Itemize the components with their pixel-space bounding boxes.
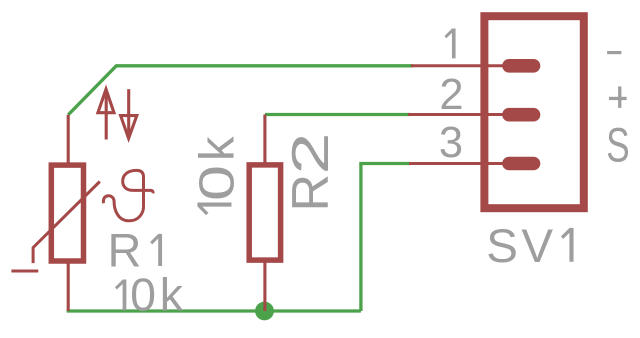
junction dot — [255, 302, 274, 321]
SV1 pin 2 line — [408, 113, 508, 116]
connector SV1 body — [484, 16, 583, 208]
SV1 pad 1 — [502, 59, 540, 73]
SV1 pad 2 — [502, 108, 540, 122]
svg-text:V: V — [521, 220, 553, 273]
svg-text:3: 3 — [439, 119, 463, 167]
R1 thermistor diagonal stroke — [11, 182, 99, 272]
svg-text:0: 0 — [130, 269, 156, 321]
SV1 pad 3 — [502, 157, 540, 171]
value 10k (R1) — [115, 280, 126, 311]
R1 down arrow — [121, 89, 137, 138]
R1 up arrow — [98, 89, 114, 139]
svg-text:S: S — [486, 220, 518, 273]
SV1 pin 1 line — [411, 64, 508, 67]
wire net N2: R2 top to SV1 pin 2 — [265, 113, 410, 116]
wire net N1: R1 top to SV1 pin 1 — [68, 66, 413, 115]
resistor R2 body — [249, 115, 280, 312]
resistor R1 body — [51, 115, 83, 311]
svg-text:k: k — [160, 269, 184, 321]
wire net N3 bottom rail — [67, 309, 361, 312]
svg-text:k: k — [191, 136, 245, 161]
svg-text:S: S — [606, 118, 629, 172]
SV1 pin 3 line — [409, 162, 508, 165]
svg-text:0: 0 — [191, 165, 245, 201]
svg-text:2: 2 — [439, 71, 463, 119]
pin name plus — [609, 86, 627, 108]
svg-text:R: R — [282, 174, 340, 212]
pin name minus — [607, 51, 621, 54]
pin number 1 — [444, 29, 455, 59]
svg-text:2: 2 — [282, 133, 340, 175]
R1 theta (temperature) symbol — [103, 170, 153, 220]
value 10k (R2, rotated) — [191, 136, 245, 215]
wire net N3: SV1 pin 3 down to bottom rail — [361, 164, 410, 312]
